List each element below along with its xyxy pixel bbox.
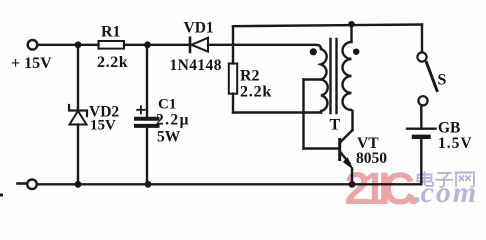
svg-text:1.5V: 1.5V [438, 135, 473, 152]
svg-text:2.2μ: 2.2μ [156, 112, 190, 129]
svg-text:VD1: VD1 [184, 20, 214, 37]
svg-text:S: S [438, 72, 447, 89]
svg-text:5W: 5W [157, 129, 181, 146]
svg-text:8050: 8050 [356, 150, 387, 167]
svg-text:1N4148: 1N4148 [170, 57, 222, 74]
svg-text:2.2k: 2.2k [97, 54, 128, 71]
svg-text:2.2k: 2.2k [240, 84, 272, 101]
svg-text:T: T [330, 117, 341, 134]
svg-text:+ 15V: + 15V [11, 55, 52, 72]
svg-text:R1: R1 [101, 24, 121, 41]
svg-text:21IC.: 21IC. [345, 163, 419, 214]
svg-text:GB: GB [438, 120, 460, 137]
svg-text:R2: R2 [240, 68, 260, 85]
svg-text:C1: C1 [158, 97, 176, 113]
svg-text:15V: 15V [90, 118, 116, 134]
